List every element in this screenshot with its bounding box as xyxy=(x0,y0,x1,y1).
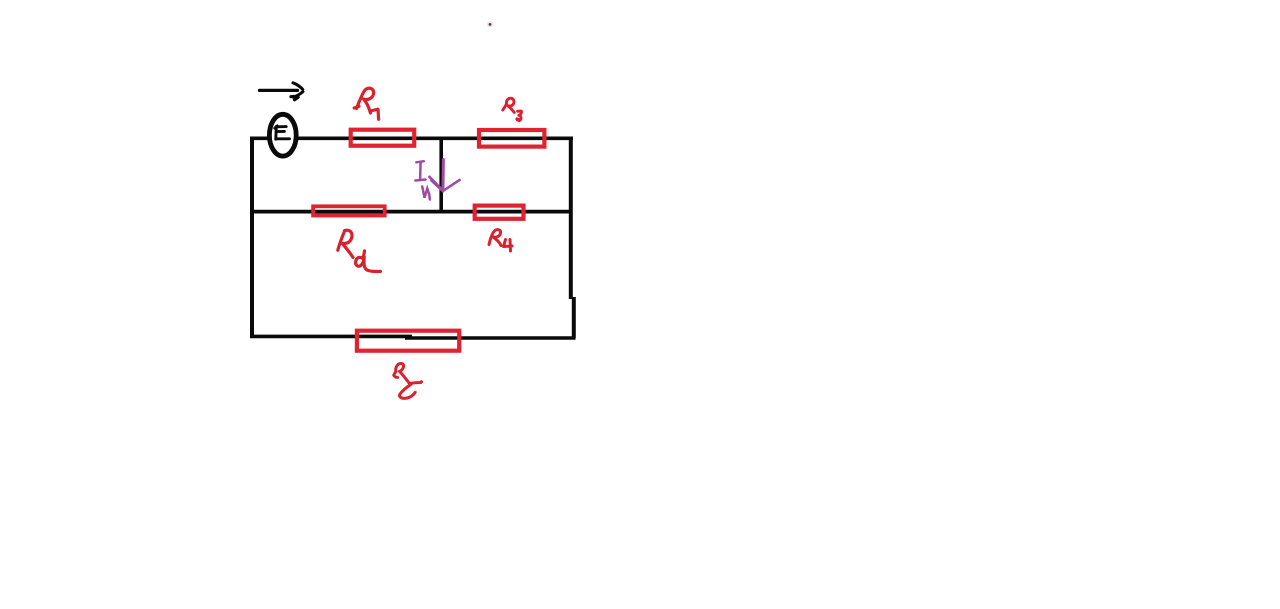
resistor R1 xyxy=(351,130,415,146)
wire right vertical lower xyxy=(572,297,576,338)
wire left vertical xyxy=(250,137,254,338)
wire bottom horizontal xyxy=(250,336,576,338)
stray dot xyxy=(487,21,493,27)
current direction arrow xyxy=(260,83,303,100)
label R2 xyxy=(338,230,381,271)
resistor R5 xyxy=(357,331,459,351)
label R5 xyxy=(394,364,422,399)
wire middle horizontal xyxy=(250,210,572,214)
current I_N arrow xyxy=(429,160,459,192)
resistor R2 xyxy=(313,206,385,215)
resistor R3 xyxy=(479,130,544,147)
source E letter xyxy=(275,126,290,139)
wire middle vertical (node branch) xyxy=(439,138,443,213)
resistor R4 xyxy=(475,206,524,219)
label R1 xyxy=(354,88,378,119)
wire right vertical upper xyxy=(569,137,573,300)
source E (ellipse) xyxy=(269,114,296,156)
label R3 xyxy=(503,98,522,120)
label R4 xyxy=(489,230,512,251)
current I_N label xyxy=(415,161,429,199)
wire top horizontal xyxy=(250,137,573,141)
